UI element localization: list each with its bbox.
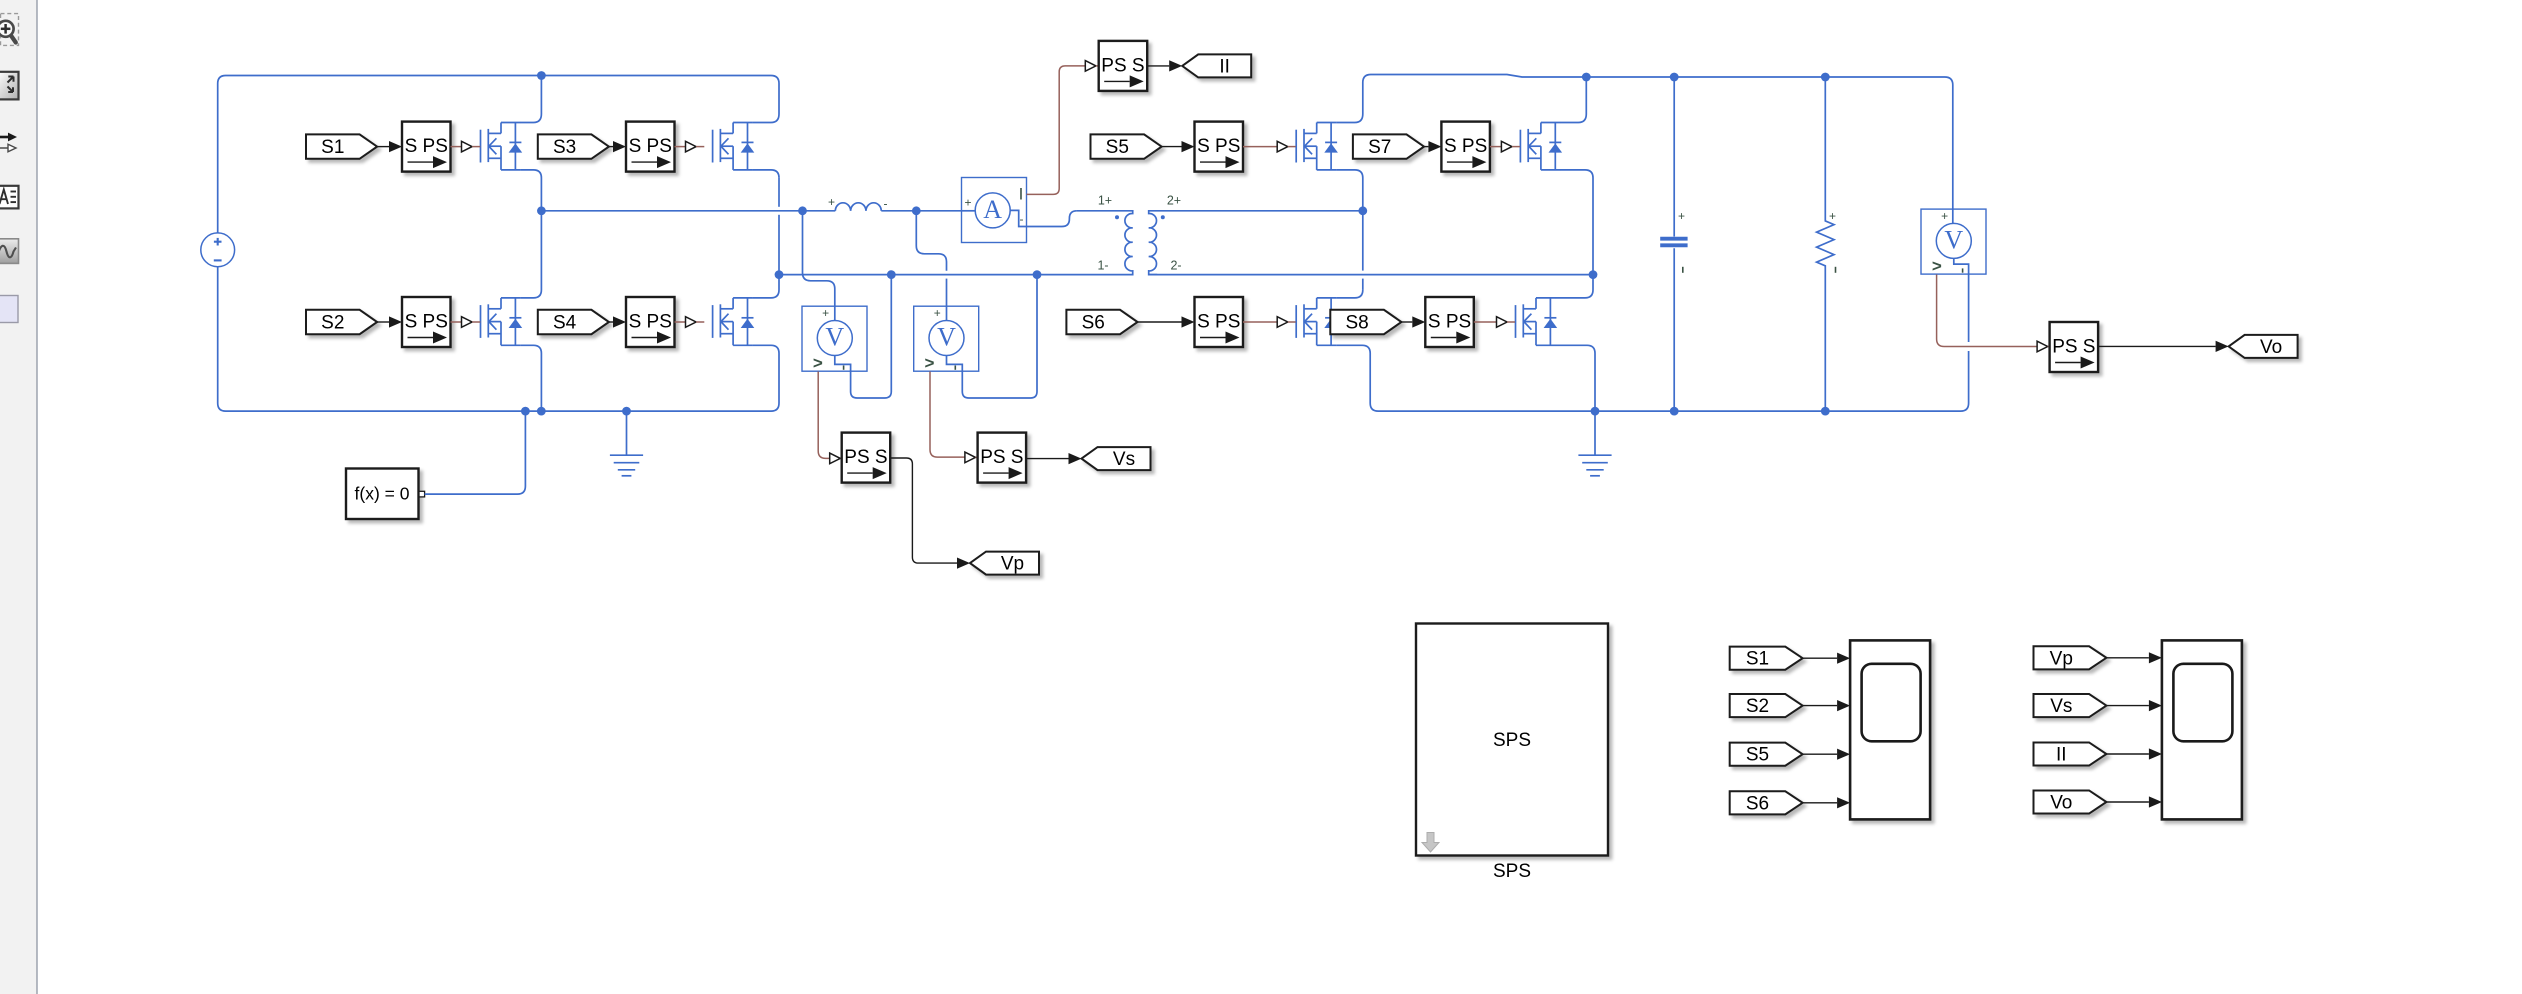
svg-text:S2: S2 bbox=[1746, 696, 1769, 717]
svg-text:>: > bbox=[925, 354, 935, 373]
svg-text:2+: 2+ bbox=[1167, 194, 1181, 208]
svg-text:S7: S7 bbox=[1368, 137, 1391, 158]
svg-text:PS S: PS S bbox=[1101, 55, 1144, 76]
svg-text:+: + bbox=[1941, 209, 1948, 223]
svg-text:S PS: S PS bbox=[629, 136, 672, 157]
svg-text:S8: S8 bbox=[1345, 313, 1368, 334]
svg-text:PS S: PS S bbox=[844, 447, 887, 468]
svg-text:II: II bbox=[1219, 56, 1230, 77]
svg-text:>: > bbox=[813, 354, 823, 373]
svg-text:S3: S3 bbox=[553, 137, 576, 158]
svg-text:Vs: Vs bbox=[2050, 696, 2072, 717]
svg-text:S5: S5 bbox=[1106, 137, 1129, 158]
svg-text:SPS: SPS bbox=[1493, 730, 1531, 751]
svg-text:+: + bbox=[1829, 209, 1836, 223]
svg-text:S PS: S PS bbox=[405, 312, 448, 333]
svg-text:f(x) = 0: f(x) = 0 bbox=[355, 484, 410, 504]
svg-text:S4: S4 bbox=[553, 313, 577, 334]
svg-text:S1: S1 bbox=[1746, 649, 1769, 670]
svg-text:S PS: S PS bbox=[1197, 312, 1240, 333]
svg-text:PS S: PS S bbox=[2052, 337, 2095, 358]
svg-text:SPS: SPS bbox=[1493, 861, 1531, 882]
svg-text:Vo: Vo bbox=[2260, 337, 2282, 358]
svg-text:V: V bbox=[1944, 225, 1963, 254]
svg-text:S6: S6 bbox=[1746, 793, 1769, 814]
svg-text:-: - bbox=[884, 197, 888, 211]
svg-text:1-: 1- bbox=[1097, 259, 1108, 273]
svg-text:2-: 2- bbox=[1170, 259, 1181, 273]
svg-text:V: V bbox=[937, 323, 956, 352]
svg-text:1+: 1+ bbox=[1098, 194, 1112, 208]
svg-text:S2: S2 bbox=[321, 313, 344, 334]
svg-text:S1: S1 bbox=[321, 137, 344, 158]
svg-text:S PS: S PS bbox=[629, 312, 672, 333]
svg-text:+: + bbox=[1678, 209, 1685, 223]
svg-text:Vp: Vp bbox=[2050, 648, 2073, 669]
svg-text:Vs: Vs bbox=[1113, 449, 1135, 470]
svg-text:S6: S6 bbox=[1082, 313, 1105, 334]
svg-text:Vo: Vo bbox=[2050, 793, 2072, 814]
svg-text:S PS: S PS bbox=[1197, 136, 1240, 157]
svg-text:S5: S5 bbox=[1746, 745, 1769, 766]
svg-text:+: + bbox=[934, 306, 941, 320]
svg-text:+: + bbox=[964, 196, 971, 210]
svg-text:I: I bbox=[1019, 185, 1024, 204]
svg-text:S PS: S PS bbox=[405, 136, 448, 157]
svg-text:V: V bbox=[825, 323, 844, 352]
svg-text:S PS: S PS bbox=[1444, 136, 1487, 157]
svg-text:Vp: Vp bbox=[1001, 554, 1024, 575]
svg-text:II: II bbox=[2056, 745, 2067, 766]
svg-text:A: A bbox=[983, 195, 1002, 224]
svg-text:>: > bbox=[1932, 256, 1942, 275]
svg-text:S PS: S PS bbox=[1428, 312, 1471, 333]
svg-text:+: + bbox=[822, 306, 829, 320]
svg-text:-: - bbox=[1020, 212, 1024, 226]
svg-text:+: + bbox=[828, 195, 835, 209]
svg-text:PS S: PS S bbox=[980, 447, 1023, 468]
